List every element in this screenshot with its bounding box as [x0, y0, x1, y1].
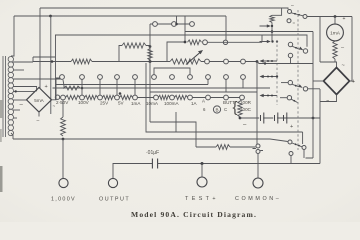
- switch S11 wiper: [292, 46, 300, 49]
- contact S7: [287, 19, 291, 23]
- wiper arm upper: [260, 25, 268, 27]
- terminal 1000V: [59, 178, 68, 187]
- svg-text:+: +: [343, 16, 346, 22]
- contact S16: [287, 96, 291, 100]
- wire R16 down: [271, 23, 273, 42]
- wire y122: [150, 122, 196, 147]
- contact S9a: [288, 10, 292, 14]
- resistor R12 battery series: [238, 101, 242, 117]
- node J8: [239, 117, 242, 120]
- wire S16 feed: [280, 97, 287, 99]
- wire row2 link: [154, 68, 190, 75]
- wire mains drop to S1b: [225, 16, 227, 40]
- resistor R9: [119, 95, 132, 99]
- bridge rectifier D1: [324, 68, 350, 95]
- svg-text:Model 90A. Circuit Diagram.: Model 90A. Circuit Diagram.: [131, 210, 257, 219]
- node J17: [264, 62, 266, 64]
- switch shaft: [297, 10, 299, 150]
- node J5b: [149, 60, 152, 63]
- contact S3f: [152, 75, 157, 80]
- node T1 tap dot: [15, 90, 17, 92]
- resistor R1: [71, 59, 92, 64]
- resistor R18 meter swamp: [333, 41, 337, 59]
- wire R16 top: [272, 8, 282, 15]
- node J7: [119, 92, 122, 95]
- resistor R2 zero adjust: [170, 59, 201, 64]
- contact S3k: [241, 75, 246, 80]
- meter M1 5mA rectifier diamond: [27, 88, 52, 113]
- resistor R8: [102, 95, 114, 99]
- wire mid bus left drop: [55, 35, 57, 100]
- wire S15 drop: [290, 156, 292, 164]
- contact S3d: [115, 75, 120, 80]
- svg-text:5V: 5V: [118, 101, 125, 106]
- contact S4j: [224, 95, 229, 100]
- resistor R6: [65, 95, 79, 99]
- svg-text:10mA: 10mA: [146, 101, 159, 106]
- wire S14b drop: [303, 150, 305, 159]
- contact S11b: [303, 49, 307, 53]
- node J9: [312, 117, 315, 120]
- resistor R16 trimmer: [270, 15, 274, 22]
- node J13c: [271, 40, 273, 42]
- meter M2 1mA: [327, 24, 344, 41]
- contact S5b: [256, 150, 260, 154]
- wire T1 tap 87: [13, 87, 37, 92]
- node J18: [175, 23, 178, 26]
- contact S3b: [80, 75, 85, 80]
- svg-text:·01μF: ·01μF: [146, 150, 159, 156]
- node J4: [256, 60, 259, 63]
- contact S11a: [288, 42, 292, 46]
- contact S5 ticks: [253, 149, 264, 151]
- terminal OUTPUT: [108, 178, 117, 187]
- wiper arm lower: [260, 41, 268, 43]
- wire test drop: [201, 164, 203, 177]
- wire batt feed: [240, 100, 242, 101]
- wire y41 bracket: [167, 42, 185, 62]
- resistor R7: [84, 95, 97, 99]
- scan artifact: [0, 100, 2, 118]
- contact S4f: [154, 95, 159, 100]
- rheostat arrow: [186, 53, 200, 65]
- contact S4k: [240, 95, 245, 100]
- contact S3c: [98, 75, 103, 80]
- contact S1b: [224, 59, 229, 64]
- wafer label B: [213, 106, 220, 113]
- svg-text:25V: 25V: [100, 101, 109, 106]
- node J16: [276, 75, 278, 77]
- svg-text:100mA: 100mA: [164, 101, 179, 106]
- svg-text:–: –: [37, 118, 40, 124]
- svg-text:1A: 1A: [191, 101, 198, 106]
- node J11: [201, 162, 204, 165]
- node J3: [149, 60, 152, 63]
- wire u-link: [146, 63, 303, 144]
- wire S13b link: [308, 88, 320, 90]
- wire row2 elbows: [208, 79, 243, 92]
- wire bridge bottom loop: [320, 95, 337, 102]
- wire meter to bridge: [320, 17, 335, 63]
- node J1: [49, 15, 52, 18]
- contact S4c: [98, 95, 103, 100]
- wire battery bus: [240, 117, 320, 119]
- node J6: [81, 87, 84, 90]
- wire bus y92: [150, 91, 257, 93]
- wire M1 right to contact: [52, 78, 61, 100]
- resistor R5 shunt: [63, 80, 80, 90]
- wire row1 segs: [201, 61, 257, 63]
- contact S2c: [190, 22, 195, 27]
- switch S16 wiper: [291, 99, 297, 102]
- resistor R4: [148, 49, 152, 61]
- wire T1 tap 79: [13, 78, 61, 80]
- wire to 1000V terminal: [62, 139, 64, 178]
- svg-text:B: B: [215, 108, 218, 113]
- svg-text:OUTPUT: OUTPUT: [99, 197, 130, 203]
- wire switch row top: [150, 23, 190, 25]
- resistor R10: [158, 95, 169, 99]
- wire bus y84: [56, 84, 209, 86]
- wiper arrow row1: [264, 60, 278, 62]
- contact S8b: [223, 40, 227, 44]
- wire bridge right: [350, 17, 353, 82]
- wire transformer primary top: [11, 16, 14, 56]
- terminal TEST: [197, 177, 207, 187]
- resistor R3: [122, 43, 146, 48]
- switch S9 wiper: [291, 13, 303, 16]
- wire bridge top stub: [335, 62, 337, 68]
- resistor R13: [216, 145, 230, 150]
- svg-text:100V: 100V: [78, 100, 90, 105]
- wire meter branch: [39, 8, 41, 88]
- node J2: [51, 60, 54, 63]
- battery B1: [261, 113, 278, 124]
- contact S3a: [60, 75, 65, 80]
- contact S12: [288, 53, 292, 57]
- wire R14 top: [62, 100, 64, 117]
- svg-text:+: +: [290, 124, 293, 130]
- node J10: [62, 138, 65, 141]
- contact S4d: [115, 95, 120, 100]
- wire tap riser: [33, 57, 55, 62]
- svg-text:C: C: [224, 107, 227, 112]
- svg-text:–: –: [291, 3, 294, 9]
- wire y31 bus: [185, 31, 313, 33]
- wire S2 feed: [149, 24, 151, 122]
- contact S14a: [288, 140, 292, 144]
- svg-text:A: A: [202, 99, 205, 104]
- contact S13b: [303, 87, 307, 91]
- wire test bus: [158, 163, 320, 165]
- scan artifact: [0, 129, 2, 142]
- svg-text:~: ~: [342, 63, 345, 69]
- wire S2c feed: [176, 16, 178, 24]
- wire J1 down: [50, 16, 52, 114]
- wire T1 tap 91: [13, 90, 35, 92]
- svg-text:1mA: 1mA: [131, 101, 141, 106]
- contact S2a: [153, 22, 158, 27]
- contact S3i: [206, 75, 211, 80]
- wire T1 tap 118: [13, 117, 17, 119]
- node J13: [271, 25, 273, 27]
- contact S2b: [172, 22, 177, 27]
- meter M1 bottom stub: [38, 112, 40, 117]
- svg-text:{: {: [233, 99, 238, 116]
- contact S13a: [288, 80, 292, 84]
- svg-text:1,000V: 1,000V: [51, 197, 76, 203]
- contact S1c: [241, 59, 246, 64]
- wire shunt box: [119, 46, 150, 62]
- node J13b: [271, 30, 274, 33]
- node J5: [149, 45, 152, 48]
- contact S4a: [61, 95, 66, 100]
- wire right frame outer: [319, 89, 321, 164]
- terminal COMMON: [253, 178, 263, 188]
- wiper arrow row3: [264, 95, 278, 97]
- contact S3h: [188, 75, 193, 80]
- wire y147: [196, 146, 256, 148]
- node J15: [334, 15, 337, 18]
- wire range bus: [33, 61, 170, 63]
- contact S8a: [203, 40, 208, 45]
- wire top bus: [40, 8, 288, 9]
- resistor R11: [174, 95, 187, 99]
- contact S3g: [170, 75, 175, 80]
- capacitor C1: [152, 159, 157, 169]
- wire meter drop: [334, 17, 336, 25]
- wire T1 tap 70: [13, 69, 24, 71]
- transformer T1 secondary winding: [8, 57, 13, 136]
- contact S1a: [205, 59, 210, 64]
- svg-text:COMMON–: COMMON–: [235, 196, 281, 202]
- wiper arrow row2: [264, 76, 278, 78]
- contact S4e: [133, 95, 138, 100]
- transformer T1 core: [3, 56, 6, 137]
- wire T1 tap 62: [13, 61, 33, 63]
- contact S3j: [224, 75, 229, 80]
- wire T1 tap 100 to rectifier: [13, 99, 27, 101]
- resistor R14 1000V: [61, 117, 66, 136]
- wire T1 bottom to ground bus: [11, 133, 13, 139]
- svg-text:1mA: 1mA: [330, 31, 341, 37]
- wire bus y88: [53, 87, 271, 89]
- wire common drop: [257, 154, 259, 178]
- wire S12 stub: [290, 58, 292, 64]
- contact S5a: [256, 144, 260, 148]
- switch shaft upper: [276, 40, 278, 105]
- wire S13a feed: [281, 82, 288, 84]
- wire T1 tap 110: [13, 109, 20, 111]
- switch S13 wiper: [292, 84, 299, 87]
- contact S4start: [55, 95, 59, 99]
- contact S4b: [80, 95, 85, 100]
- contact S4h: [188, 95, 193, 100]
- wire output riser: [113, 164, 152, 179]
- wire bridge left: [313, 80, 324, 82]
- contact S4g: [170, 95, 175, 100]
- contact S14b: [302, 146, 306, 150]
- battery B2: [284, 113, 287, 124]
- contact S9b: [303, 15, 307, 19]
- wire mains bus: [14, 15, 226, 17]
- contact S4i: [206, 95, 211, 100]
- switch S14 wiper: [292, 143, 302, 147]
- node J14: [184, 41, 187, 44]
- wire row1 extension: [257, 62, 313, 64]
- contact S15: [289, 152, 293, 156]
- contact S3e: [133, 75, 138, 80]
- node J13d: [276, 41, 278, 43]
- wire right frame inner: [306, 32, 314, 159]
- scan artifact: [0, 166, 3, 192]
- wire row2 drops: [82, 79, 135, 95]
- wire common vert: [256, 62, 258, 145]
- svg-text:+: +: [45, 84, 48, 90]
- wire bus y139: [13, 139, 288, 142]
- wire mid bus: [55, 35, 307, 47]
- resistor R17: [188, 40, 202, 45]
- wire y41: [185, 16, 262, 42]
- wire to meter: [307, 16, 352, 18]
- svg-text:=: =: [293, 20, 296, 25]
- svg-text:TEST+: TEST+: [185, 196, 219, 202]
- wire chain gaps: [137, 97, 239, 99]
- svg-text:5mA: 5mA: [34, 98, 44, 103]
